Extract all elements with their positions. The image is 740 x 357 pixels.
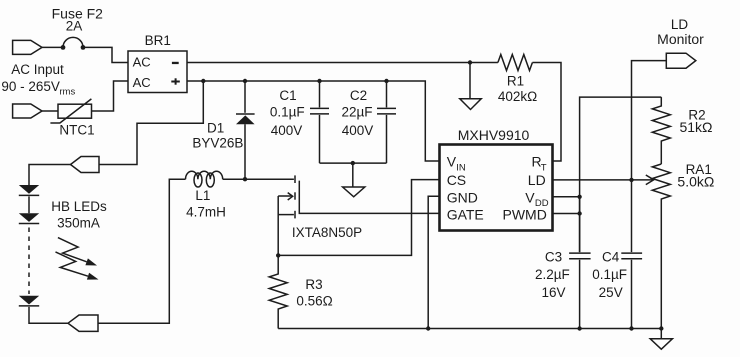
wire J4 to L1 bbox=[98, 179, 186, 323]
label R2 51k bbox=[679, 107, 712, 135]
wire LED D2 to D3 bbox=[28, 196, 30, 213]
svg-text:25V: 25V bbox=[599, 285, 623, 300]
label C2 22uF 400V bbox=[341, 88, 373, 138]
connector J1 AC line input bbox=[13, 40, 42, 54]
connector J4 LED- bbox=[68, 315, 98, 331]
svg-text:rms: rms bbox=[59, 87, 75, 98]
transistor Q1 IXTA8N50P bbox=[278, 175, 439, 218]
wire J1 to fuse bbox=[42, 46, 63, 48]
svg-text:LD: LD bbox=[528, 172, 546, 188]
svg-text:0.1µF: 0.1µF bbox=[592, 267, 627, 282]
svg-text:GATE: GATE bbox=[447, 207, 484, 223]
wire dashed LED string continuation bbox=[28, 228, 30, 295]
svg-text:C4: C4 bbox=[602, 249, 620, 264]
svg-text:51kΩ: 51kΩ bbox=[679, 119, 712, 135]
op-amp U1 MXHV9910 controller bbox=[440, 145, 553, 231]
wire VDD stub bbox=[553, 196, 580, 198]
thermistor NTC1 bbox=[50, 99, 91, 123]
resistor R3 bbox=[269, 255, 287, 328]
node positive rail to C2 bbox=[384, 79, 388, 83]
node positive rail to C1 bbox=[317, 79, 321, 83]
svg-text:90 - 265V: 90 - 265V bbox=[1, 79, 60, 94]
wire VDD riser to R2 bbox=[580, 97, 662, 252]
svg-text:MXHV9910: MXHV9910 bbox=[458, 127, 530, 143]
svg-text:R3: R3 bbox=[305, 277, 322, 292]
svg-text:0.56Ω: 0.56Ω bbox=[296, 293, 332, 308]
capacitor C3 bbox=[569, 197, 591, 329]
node positive rail to D1 bbox=[243, 79, 247, 83]
node negative rail / ground tap bbox=[468, 60, 472, 64]
svg-text:BR1: BR1 bbox=[145, 33, 171, 48]
svg-text:LD: LD bbox=[671, 17, 689, 32]
LED D4 bbox=[19, 296, 39, 306]
wire negative rail BR1 to R1 bbox=[187, 62, 498, 64]
potentiometer RA1 bbox=[652, 164, 670, 329]
svg-text:402kΩ: 402kΩ bbox=[498, 89, 537, 104]
svg-text:4.7mH: 4.7mH bbox=[186, 205, 226, 220]
connector J2 AC neutral input bbox=[13, 104, 42, 118]
LED light emission arrow upper bbox=[58, 238, 97, 266]
wire GND pin to ground rail bbox=[428, 196, 439, 328]
svg-text:R1: R1 bbox=[507, 74, 524, 89]
label L1 4.7mH bbox=[186, 188, 226, 220]
svg-text:HB LEDs: HB LEDs bbox=[51, 199, 107, 214]
label R1 402k bbox=[498, 74, 537, 105]
svg-text:GND: GND bbox=[447, 189, 478, 205]
resistor R2 bbox=[652, 97, 670, 164]
node C4 rail junction bbox=[629, 326, 633, 330]
connector J3 LED+ bbox=[71, 157, 100, 173]
svg-text:400V: 400V bbox=[342, 123, 374, 138]
wire fuse to BR1 AC1 bbox=[83, 47, 128, 62]
node LD C4 monitor junction bbox=[629, 178, 633, 182]
svg-text:L1: L1 bbox=[195, 188, 210, 203]
capacitor C1 bbox=[310, 81, 329, 163]
svg-text:2A: 2A bbox=[66, 18, 83, 33]
diode D1 bbox=[236, 81, 255, 179]
wire R1 to RT pin bbox=[532, 63, 561, 162]
svg-text:V: V bbox=[525, 189, 535, 205]
svg-text:22µF: 22µF bbox=[341, 105, 372, 120]
LED D2 bbox=[19, 185, 39, 195]
node L1 D1 drain junction bbox=[243, 177, 247, 181]
label C4 0.1uF 25V bbox=[592, 249, 627, 300]
connector J5 LD monitor bbox=[666, 53, 696, 68]
wire C1 C2 bottom bbox=[320, 162, 387, 164]
ground G1 bbox=[460, 63, 481, 110]
svg-text:PWMD: PWMD bbox=[503, 207, 547, 223]
fuse F2 bbox=[61, 37, 86, 49]
wire Q1 source to R3 bbox=[277, 196, 279, 255]
wire LED string to connector J4 bbox=[29, 307, 68, 323]
svg-text:NTC1: NTC1 bbox=[59, 122, 94, 137]
inductor L1 bbox=[186, 171, 223, 187]
wire positive rail to connector J3 bbox=[99, 81, 203, 165]
resistor R1 bbox=[498, 55, 533, 71]
wire LD pin to RA1 wiper bbox=[553, 179, 653, 181]
node R3 top / CS junction bbox=[276, 253, 280, 257]
label LD Monitor bbox=[657, 17, 704, 47]
label C1 0.1uF 400V bbox=[270, 88, 305, 138]
label HB LEDs 350mA bbox=[51, 199, 107, 231]
svg-text:AC Input: AC Input bbox=[11, 62, 64, 77]
svg-text:C2: C2 bbox=[350, 88, 367, 103]
node C1 C2 ground tap bbox=[351, 161, 355, 165]
wire L1 to drain node bbox=[223, 178, 245, 180]
LED light emission arrow lower bbox=[56, 252, 99, 280]
svg-text:C3: C3 bbox=[545, 249, 562, 264]
wire node to Q1 drain bbox=[245, 178, 294, 180]
wire J2 to NTC1 bbox=[42, 110, 58, 112]
node C3 rail junction bbox=[577, 326, 581, 330]
node RA1 rail junction bbox=[659, 326, 663, 330]
wire NTC1 to BR1 AC2 bbox=[92, 81, 129, 111]
label Fuse F2 2A bbox=[52, 5, 104, 33]
svg-text:350mA: 350mA bbox=[57, 216, 100, 231]
capacitor C2 bbox=[377, 81, 396, 163]
svg-text:BYV26B: BYV26B bbox=[192, 136, 243, 151]
node positive rail to LED feed bbox=[201, 79, 205, 83]
wire ground rail bbox=[278, 328, 661, 330]
capacitor C4 bbox=[621, 180, 642, 329]
LED D3 bbox=[19, 213, 39, 223]
svg-text:D1: D1 bbox=[207, 121, 224, 136]
ground G2 bbox=[343, 163, 365, 197]
svg-text:IXTA8N50P: IXTA8N50P bbox=[292, 225, 362, 240]
svg-text:5.0kΩ: 5.0kΩ bbox=[677, 174, 714, 190]
svg-text:400V: 400V bbox=[271, 123, 303, 138]
label AC Input 90-265Vrms bbox=[1, 62, 75, 98]
label RA1 5.0k bbox=[677, 162, 714, 189]
node VDD junction bbox=[577, 195, 581, 199]
svg-text:AC: AC bbox=[133, 75, 151, 90]
svg-text:AC: AC bbox=[133, 55, 151, 70]
wire CS pin to R3 node bbox=[278, 180, 439, 256]
svg-text:2.2µF: 2.2µF bbox=[535, 267, 570, 282]
svg-text:0.1µF: 0.1µF bbox=[270, 105, 305, 120]
wiper arrow RA1 bbox=[646, 175, 654, 185]
svg-text:Monitor: Monitor bbox=[657, 31, 704, 47]
label C3 2.2uF 16V bbox=[535, 249, 570, 300]
wire J3 to LED string bbox=[29, 165, 71, 186]
ground G3 bbox=[650, 329, 672, 350]
label R3 0.56 bbox=[296, 277, 332, 308]
node PWMD junction bbox=[577, 211, 581, 215]
svg-text:CS: CS bbox=[447, 172, 466, 188]
wire positive rail BR1 to VIN pin bbox=[187, 81, 440, 161]
svg-text:C1: C1 bbox=[279, 88, 296, 103]
label D1 BYV26B bbox=[192, 121, 243, 151]
svg-text:V: V bbox=[447, 154, 457, 170]
node GND pin rail junction bbox=[426, 326, 430, 330]
svg-text:16V: 16V bbox=[541, 285, 565, 300]
wire monitor branch bbox=[632, 61, 667, 180]
bridge rectifier BR1 bbox=[128, 51, 187, 93]
wire PWMD stub bbox=[553, 213, 580, 215]
